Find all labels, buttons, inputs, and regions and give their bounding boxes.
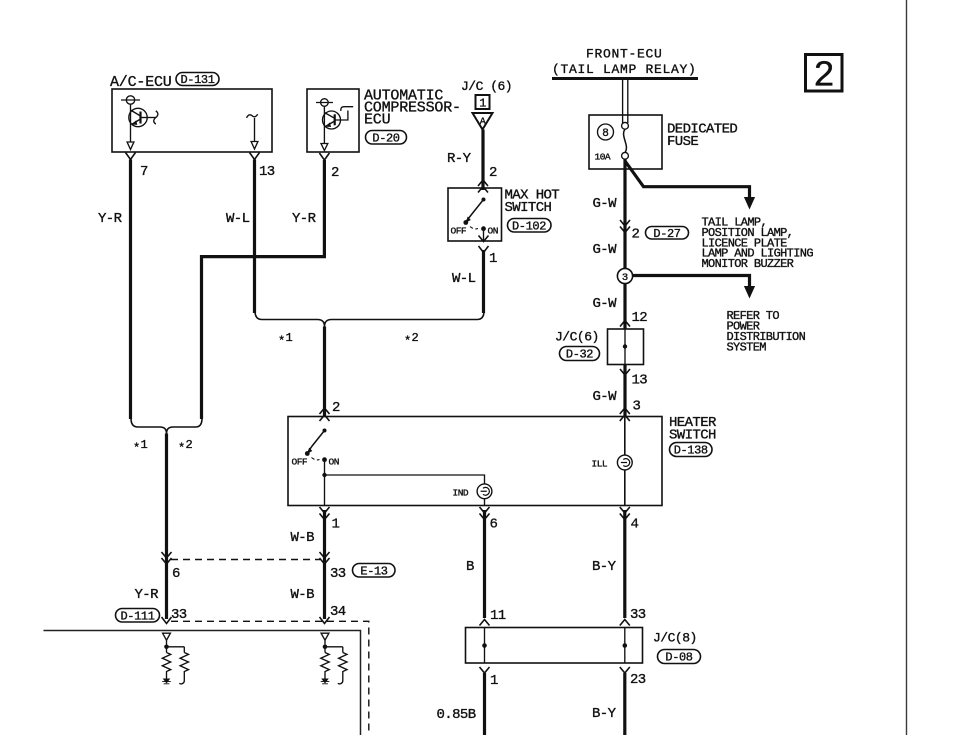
node splice right — [323, 645, 343, 653]
svg-text:W-B: W-B — [291, 587, 315, 603]
branch wire to power distribution — [633, 276, 756, 299]
junction box J/C(8) D-08 — [466, 628, 643, 664]
svg-text:D-20: D-20 — [372, 131, 399, 145]
box S1 MAX HOT SWITCH — [448, 188, 502, 241]
ground right — [321, 679, 330, 684]
label W-B lower — [291, 587, 315, 603]
transistor Q3 in compressor ECU — [316, 99, 353, 143]
svg-text:D-111: D-111 — [120, 609, 154, 623]
wire W-B from heater pin 1 — [291, 510, 325, 619]
svg-text:4: 4 — [631, 517, 639, 533]
resistor R4 — [339, 653, 347, 676]
label J/C (6) top — [461, 79, 512, 94]
svg-text:2: 2 — [813, 56, 835, 97]
svg-text:33: 33 — [330, 566, 346, 582]
svg-text:G-W: G-W — [593, 296, 618, 312]
label DEDICATED FUSE — [667, 122, 737, 151]
svg-text:G-W: G-W — [593, 389, 618, 405]
svg-text:6: 6 — [172, 566, 180, 582]
svg-text:D-138: D-138 — [674, 444, 708, 458]
wire B-Y bottom — [592, 673, 625, 735]
switch arm S2 — [305, 429, 327, 476]
svg-text:J/C (6): J/C (6) — [461, 79, 512, 94]
svg-text:*: * — [178, 442, 185, 456]
svg-text:J/C(8): J/C(8) — [653, 631, 697, 646]
svg-text:ON: ON — [329, 457, 339, 468]
svg-text:G-W: G-W — [593, 242, 618, 258]
connector ref D-20 — [366, 131, 407, 146]
svg-text:D-27: D-27 — [653, 227, 680, 241]
svg-text:11: 11 — [490, 608, 506, 624]
svg-text:IND: IND — [453, 488, 469, 499]
lamp IND — [453, 484, 492, 499]
svg-text:1: 1 — [141, 438, 148, 452]
svg-text:1: 1 — [479, 97, 486, 111]
wire R-Y — [447, 130, 483, 191]
svg-text:2: 2 — [332, 400, 340, 416]
svg-text:J/C(6): J/C(6) — [555, 330, 599, 345]
pin 33 of D-111 — [162, 607, 187, 624]
svg-text:SWITCH: SWITCH — [669, 428, 716, 444]
label *1 right brace — [278, 331, 293, 349]
resistor R1 — [162, 653, 170, 679]
node 3 splice — [617, 268, 632, 284]
svg-text:W-L: W-L — [226, 211, 250, 227]
svg-text:D-102: D-102 — [512, 219, 546, 233]
label OFF — [451, 226, 467, 237]
label MAX HOT SWITCH — [505, 188, 560, 217]
wire to heater switch pin 2 — [323, 327, 326, 417]
branch wire to tail lamps — [625, 161, 755, 210]
label HEATER SWITCH — [669, 415, 717, 444]
label A/C-ECU title — [110, 74, 172, 91]
resistor network right pin triangle — [321, 633, 329, 644]
label J/C(6) — [555, 330, 599, 345]
svg-text:A: A — [480, 117, 486, 128]
svg-text:13: 13 — [259, 164, 275, 180]
svg-text:2: 2 — [412, 331, 419, 345]
svg-text:*: * — [278, 335, 285, 349]
pin 23 out of J/C(8) — [620, 667, 646, 688]
coil hook right — [338, 676, 343, 684]
svg-text:G-W: G-W — [593, 196, 618, 212]
connector ref D-131 — [176, 73, 219, 87]
pin 7 — [126, 153, 149, 181]
svg-text:OFF: OFF — [451, 226, 467, 237]
node A triangle — [473, 113, 493, 130]
connector ref D-08 — [658, 650, 701, 665]
label TAIL LAMP annotation — [702, 216, 814, 272]
svg-text:23: 23 — [630, 672, 646, 688]
label *1 left brace — [133, 438, 148, 456]
svg-text:1: 1 — [286, 331, 293, 345]
wire Y-R from pin 7 — [98, 160, 131, 420]
svg-text:SWITCH: SWITCH — [505, 200, 552, 216]
connector ref D-27 — [646, 227, 689, 241]
resistor R3 — [321, 653, 329, 679]
lamp ILL — [592, 455, 633, 470]
node splice left — [164, 645, 184, 653]
pin 2 of MAX HOT SWITCH — [478, 165, 497, 193]
svg-text:Y-R: Y-R — [135, 587, 160, 603]
svg-text:13: 13 — [632, 373, 648, 389]
pin 13 of J/C D-32 — [620, 369, 647, 389]
label REFER TO POWER DISTRIBUTION SYSTEM — [727, 309, 806, 354]
pin arrow of Q1 — [127, 142, 134, 150]
box U1 A/C-ECU — [112, 89, 272, 152]
svg-text:6: 6 — [490, 517, 498, 533]
label AUTOMATIC COMPRESSOR-ECU — [364, 88, 461, 129]
pin 1 of MAX HOT SWITCH — [479, 236, 498, 268]
brace joining Y-R variants — [131, 419, 202, 434]
svg-text:34: 34 — [330, 604, 346, 620]
label Y-R lower — [135, 587, 160, 603]
svg-text:FUSE: FUSE — [667, 134, 698, 150]
svg-text:W-B: W-B — [291, 530, 315, 546]
label *2 left brace — [178, 438, 193, 456]
transistor Q2 symbol (coil) in A/C-ECU — [247, 114, 258, 149]
node junction in heater switch — [322, 473, 326, 477]
fuse element F1 — [622, 122, 629, 159]
pin 12 of J/C D-32 — [620, 310, 647, 327]
page number 2 — [806, 55, 843, 97]
svg-text:ILL: ILL — [592, 459, 608, 470]
wire G-W from fuse — [593, 159, 626, 268]
wire W-L from switch — [452, 250, 484, 313]
connector 2 D-27 chevrons — [620, 220, 640, 243]
connector ref D-102 — [508, 219, 552, 234]
wire Y-R merged — [165, 434, 168, 620]
pin 33 of J/C(8) — [620, 607, 646, 626]
connector ref D-32 — [560, 347, 600, 362]
wire IND to pin 6 — [484, 499, 486, 506]
junction box J/C(6) D-32 — [608, 329, 644, 365]
svg-text:MONITOR BUZZER: MONITOR BUZZER — [702, 257, 794, 271]
svg-text:FRONT-ECU: FRONT-ECU — [586, 46, 663, 61]
label ON heater — [329, 457, 339, 468]
wire W-L from pin 13 — [226, 160, 255, 314]
svg-text:*: * — [404, 335, 411, 349]
box F1 DEDICATED FUSE — [589, 115, 662, 169]
wire to pin 1 inside — [324, 475, 326, 506]
svg-text:1: 1 — [332, 517, 340, 533]
svg-text:3: 3 — [622, 272, 628, 284]
bus bar under FRONT-ECU — [552, 77, 698, 80]
connector 33 E-13 chevrons — [320, 552, 346, 582]
label G-W second — [593, 242, 618, 258]
wire ILL to pin 4 — [624, 470, 626, 505]
transistor Q1 in A/C-ECU — [121, 96, 158, 142]
wire G-W fourth — [593, 365, 626, 417]
pin 2 of heater switch — [320, 400, 341, 421]
svg-text:3: 3 — [633, 399, 641, 415]
svg-text:8: 8 — [602, 128, 609, 140]
pin arrow of Q3 — [321, 144, 328, 151]
connector ref D-138 — [670, 443, 713, 458]
resistor R2 — [180, 653, 188, 676]
svg-text:B-Y: B-Y — [592, 706, 617, 722]
wire ILL lamp from pin 3 — [624, 417, 626, 455]
pin 6 of heater switch — [480, 507, 498, 533]
label *2 right brace — [404, 331, 419, 349]
wire B from heater pin 6 — [466, 510, 485, 618]
svg-text:2: 2 — [331, 165, 339, 181]
junction block 1 — [476, 95, 490, 111]
svg-text:1: 1 — [489, 251, 497, 267]
label J/C(8) — [653, 631, 697, 646]
dashed link 6 to 33 — [171, 559, 320, 561]
wire to IND lamp — [325, 475, 485, 484]
wire G-W third — [593, 284, 626, 330]
svg-text:12: 12 — [632, 310, 648, 326]
svg-text:Y-R: Y-R — [98, 211, 123, 227]
label 10A — [595, 152, 611, 163]
svg-text:Y-R: Y-R — [292, 211, 317, 227]
svg-text:1: 1 — [490, 673, 498, 689]
svg-text:D-08: D-08 — [665, 651, 692, 665]
pin 13 — [250, 153, 275, 181]
box U2 AUTOMATIC COMPRESSOR-ECU — [307, 89, 359, 152]
svg-text:10A: 10A — [595, 152, 611, 163]
svg-text:SYSTEM: SYSTEM — [727, 340, 767, 354]
pin 1 out of J/C(8) — [480, 667, 499, 689]
pin 11 of J/C(8) — [480, 608, 506, 626]
svg-text:ON: ON — [488, 226, 498, 237]
svg-text:33: 33 — [630, 607, 646, 623]
svg-text:2: 2 — [186, 438, 193, 452]
svg-text:2: 2 — [489, 165, 497, 181]
wire Y-R from compressor pin 2 — [202, 160, 325, 419]
wire B-Y from heater pin 4 — [592, 510, 625, 618]
ground left — [162, 679, 171, 684]
connector ref D-111 — [116, 609, 160, 624]
svg-text:(TAIL LAMP RELAY): (TAIL LAMP RELAY) — [552, 62, 697, 77]
label ON — [488, 226, 498, 237]
svg-text:B: B — [466, 559, 474, 575]
svg-text:0.85B: 0.85B — [437, 707, 476, 723]
svg-text:ECU: ECU — [364, 112, 390, 129]
dashed harness boundary — [171, 621, 369, 735]
coil hook left — [179, 676, 184, 684]
svg-text:*: * — [133, 442, 140, 456]
pin 2 of compressor ECU — [319, 153, 339, 181]
switch arm S1 — [463, 198, 486, 242]
label FRONT-ECU (TAIL LAMP RELAY) — [552, 46, 697, 77]
svg-text:2: 2 — [632, 227, 640, 243]
box S2 HEATER SWITCH — [288, 417, 662, 506]
page border line — [906, 0, 908, 735]
svg-text:7: 7 — [140, 164, 148, 180]
connector ref E-13 — [353, 564, 396, 579]
fuse number 8 — [598, 124, 614, 140]
svg-text:OFF: OFF — [292, 457, 308, 468]
brace joining W-L variants — [255, 311, 484, 327]
pin 4 of heater switch — [620, 507, 639, 533]
svg-text:B-Y: B-Y — [592, 559, 617, 575]
svg-text:E-13: E-13 — [360, 564, 387, 578]
resistor network left pin triangle — [163, 633, 171, 644]
pin 34 — [320, 604, 346, 624]
svg-text:D-32: D-32 — [566, 348, 593, 362]
wire pair from front-ecu to fuse — [623, 80, 628, 123]
svg-text:R-Y: R-Y — [447, 151, 472, 167]
ground bus line — [44, 631, 361, 735]
wire 0.85B — [437, 673, 485, 735]
svg-text:D-131: D-131 — [180, 73, 214, 87]
connector 6 chevrons — [162, 552, 181, 582]
pin 3 of heater switch — [620, 399, 641, 422]
svg-text:W-L: W-L — [452, 271, 476, 287]
label OFF heater — [292, 457, 308, 468]
pin 1 of heater switch — [320, 507, 340, 533]
